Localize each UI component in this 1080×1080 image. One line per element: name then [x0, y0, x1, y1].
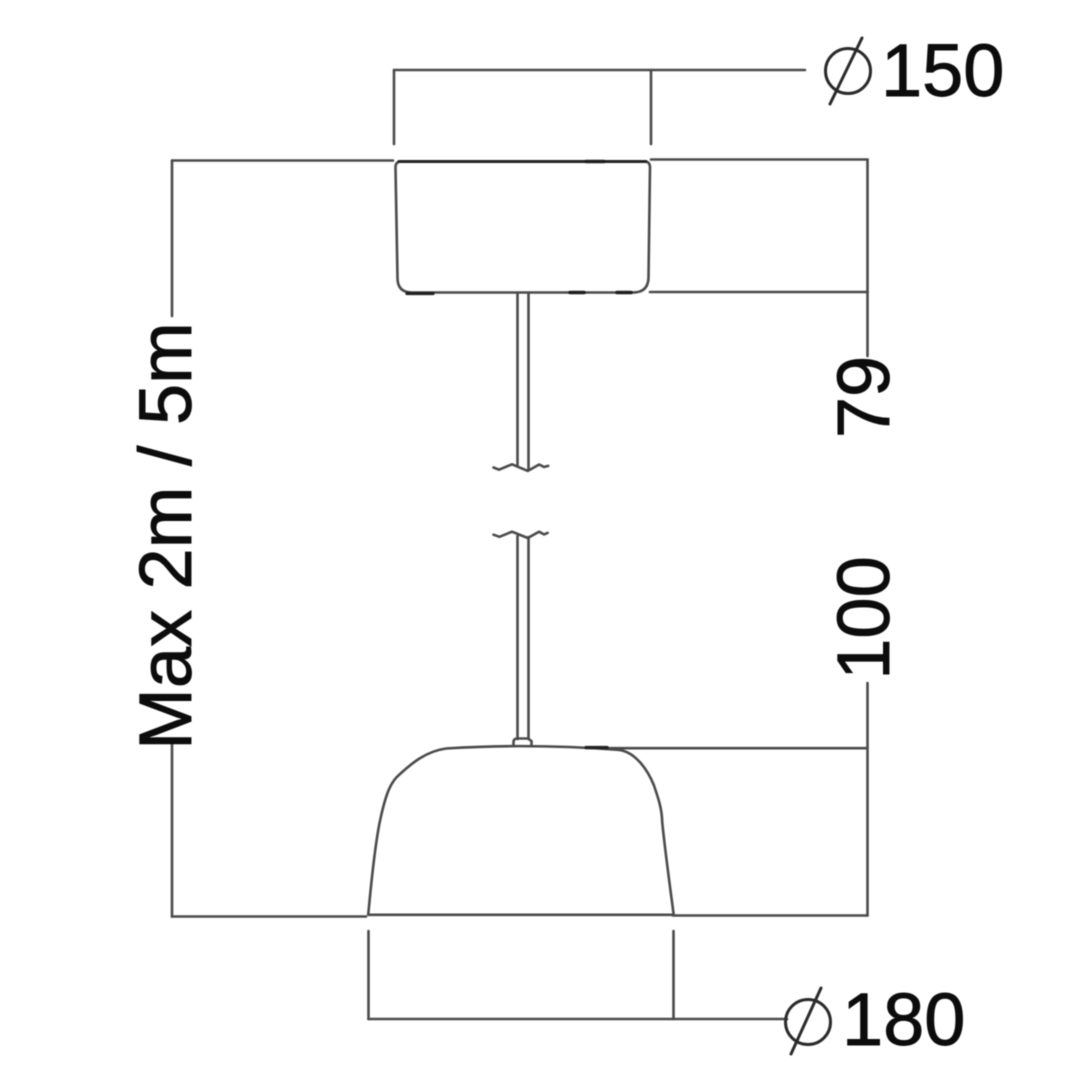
- svg-text:100: 100: [822, 556, 905, 679]
- cable lower segment right line: [527, 537, 530, 739]
- dimension 100 bottom reference line: [673, 914, 868, 917]
- extension line D180 right: [672, 931, 675, 1019]
- svg-text:79: 79: [822, 356, 905, 438]
- left dimension line upper segment: [171, 161, 174, 317]
- cable upper segment left line: [516, 294, 519, 465]
- svg-text:180: 180: [842, 978, 965, 1061]
- dimension 79 bottom reference line: [650, 291, 868, 294]
- cable connector: [514, 739, 532, 747]
- canopy top edge: [399, 160, 646, 163]
- dimension line 79: [866, 160, 869, 357]
- break mark lower: [494, 532, 548, 538]
- canopy bottom edge tick right: [617, 291, 631, 295]
- left dimension top reference line: [172, 159, 393, 162]
- break mark upper: [494, 464, 549, 471]
- shade top edge tick: [586, 746, 607, 749]
- dimension line D150: [394, 69, 805, 72]
- dimension 79 top reference line: [651, 158, 868, 161]
- cable lower segment left line: [516, 536, 519, 739]
- shade: [368, 746, 674, 915]
- canopy: [396, 162, 651, 293]
- extension line D150 left: [393, 70, 396, 144]
- extension line D150 right: [650, 70, 653, 144]
- svg-text:Max 2m / 5m: Max 2m / 5m: [124, 322, 207, 750]
- left dimension line lower segment: [171, 743, 174, 917]
- dimension 100 top reference line: [604, 747, 868, 750]
- dimension line 100: [866, 683, 869, 916]
- diameter symbol D150: [826, 38, 871, 104]
- svg-text:150: 150: [881, 29, 1004, 112]
- diameter symbol D180: [786, 988, 831, 1054]
- canopy top edge tick: [586, 160, 604, 164]
- dimension line D180: [369, 1018, 788, 1021]
- cable upper segment right line: [527, 294, 530, 470]
- canopy bottom left dash: [407, 292, 433, 295]
- canopy bottom edge tick left: [570, 291, 584, 295]
- left dimension bottom reference line: [172, 915, 366, 918]
- extension line D180 left: [367, 931, 370, 1019]
